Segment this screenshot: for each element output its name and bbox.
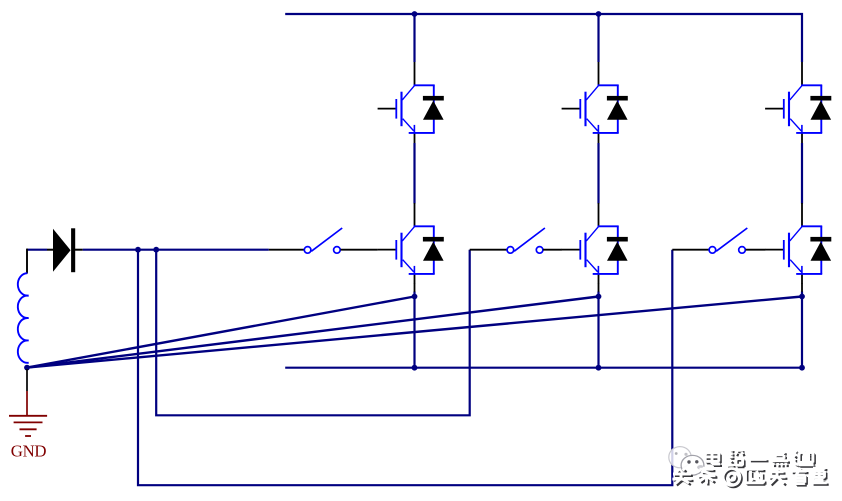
svg-text:GND: GND: [11, 442, 47, 461]
